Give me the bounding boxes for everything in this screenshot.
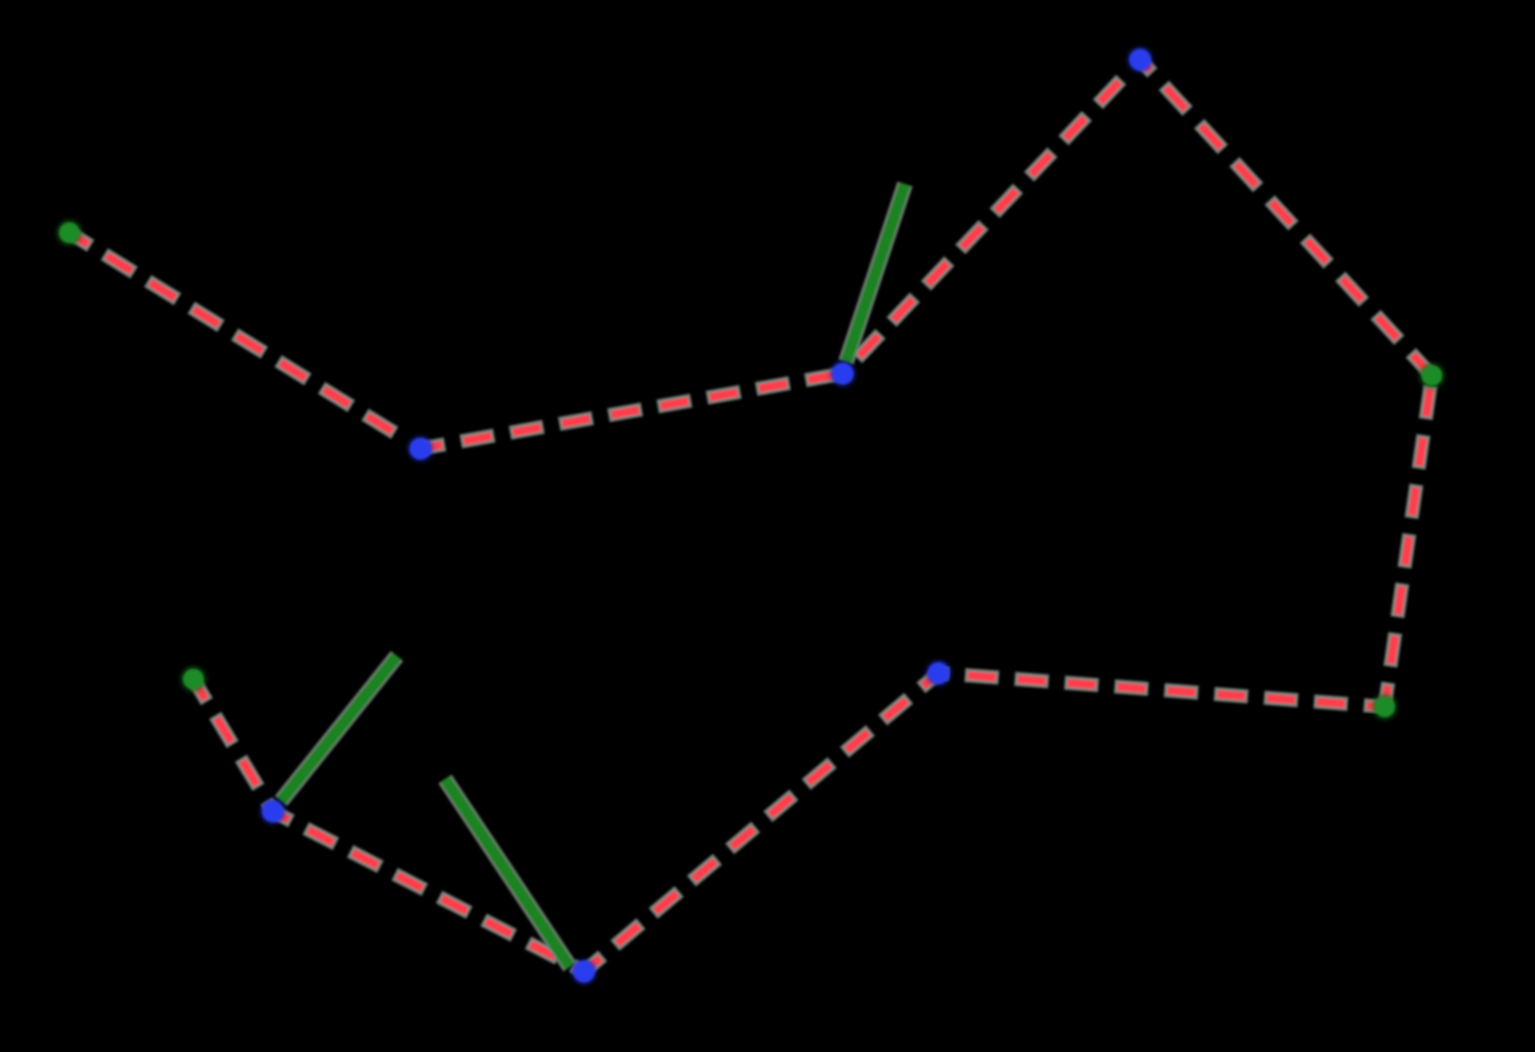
- tour edge G5-G6: [1385, 376, 1432, 707]
- node G6 (green): [1372, 694, 1397, 719]
- node G1 (green): [57, 220, 82, 245]
- node B10 (blue): [572, 959, 597, 984]
- node B4 (blue): [1128, 47, 1153, 72]
- tour edge B7-B10: [584, 673, 939, 972]
- tour edge B2-B3: [420, 375, 836, 449]
- green segment 3: [445, 779, 570, 967]
- node B7 (blue): [926, 661, 951, 686]
- node G5 (green): [1419, 363, 1444, 388]
- tour edge B10-B9: [273, 811, 584, 971]
- tour edge B3-B4: [843, 68, 1132, 373]
- node B2 (blue): [408, 436, 433, 461]
- tour edge B9-G8: [193, 679, 272, 811]
- node B9 (blue): [260, 799, 285, 824]
- tour edge B4-G5: [1140, 60, 1432, 376]
- tour edge G1-B2: [69, 233, 403, 439]
- tour edge G6-B7: [939, 673, 1385, 707]
- node B3 (blue): [830, 361, 855, 386]
- node G8 (green): [181, 667, 206, 692]
- green segment 2: [281, 656, 397, 801]
- green segment 1: [846, 184, 905, 362]
